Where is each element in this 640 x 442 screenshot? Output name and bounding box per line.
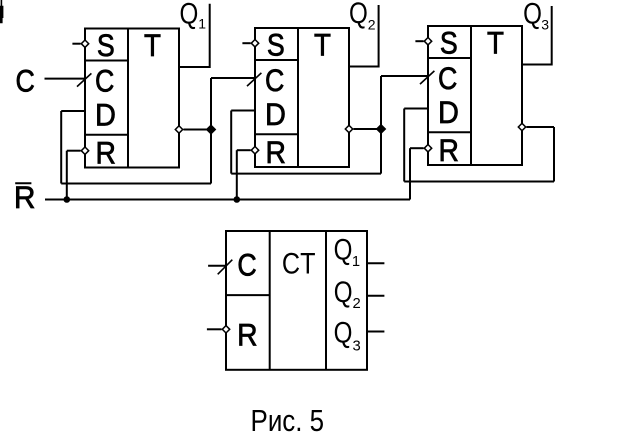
reset bus wire <box>45 199 410 201</box>
DD1 label D <box>95 98 116 132</box>
node B junction diamond <box>376 124 385 133</box>
DD1 label C <box>95 64 114 98</box>
wire DD3 feedback left riser to D <box>403 109 405 182</box>
svg-text:R: R <box>237 318 257 353</box>
svg-text:T: T <box>314 28 331 63</box>
DD2 label R <box>265 136 285 171</box>
DD3 pin D wire <box>404 108 428 110</box>
label Q1 <box>179 0 198 30</box>
svg-text:R: R <box>265 136 285 171</box>
svg-text:R: R <box>14 179 36 215</box>
input label C <box>15 64 34 98</box>
counter pin R stub wire <box>207 328 222 330</box>
DD1 label S <box>97 29 115 63</box>
counter label Q3 <box>334 316 353 349</box>
wire DD2 R down to reset bus <box>236 150 238 199</box>
DD3 label D <box>438 96 459 130</box>
DD2 pin D wire <box>231 110 255 112</box>
junction dot DD1 R on reset bus <box>64 196 71 203</box>
DD1 pin R inversion diamond <box>81 147 88 154</box>
counter pin C input wire <box>208 265 226 267</box>
counter label R <box>237 318 257 353</box>
input label R overbar <box>15 182 31 184</box>
DD3 label S <box>440 26 458 60</box>
svg-text:D: D <box>438 96 459 130</box>
DD2 pin R stub wire <box>237 149 251 151</box>
wire DD2 Qbar to node B <box>353 128 381 130</box>
flip-flop DD1 box <box>85 29 179 168</box>
DD2 pin C dynamic-input slash <box>247 73 261 86</box>
counter label Q1 <box>334 233 353 266</box>
counter pin Q3 output stub <box>367 331 384 333</box>
counter label Q2 <box>334 276 353 309</box>
DD3 inverted output diamond <box>518 123 525 130</box>
DD1 pin C dynamic-input slash <box>77 73 91 86</box>
wire node B to DD3 clock input <box>381 75 428 77</box>
wire DD1 R down to reset bus <box>66 151 68 200</box>
DD3 pin R inversion diamond <box>424 145 431 152</box>
svg-text:Q: Q <box>334 316 353 349</box>
DD3 pin S stub wire <box>415 40 423 42</box>
DD1 label T <box>144 29 161 64</box>
wire node A vertical (clock riser and feedback drop) <box>210 78 212 184</box>
DD3 pin R stub wire <box>410 147 424 149</box>
counter pin Q2 output stub <box>367 295 384 297</box>
wire input C to DD1 <box>45 78 86 80</box>
svg-text:Q: Q <box>179 0 198 30</box>
DD3 pin S inversion diamond <box>424 38 431 45</box>
svg-text:2: 2 <box>368 17 376 33</box>
DD1 pin D wire <box>61 110 85 112</box>
wire node A to DD2 clock input <box>211 77 255 79</box>
scan artifact top-left edge <box>0 0 3 23</box>
svg-text:S: S <box>97 29 115 63</box>
wire DD1 feedback bottom <box>61 183 211 185</box>
DD2 label D <box>265 98 286 132</box>
DD2 pin S stub wire <box>242 42 250 44</box>
svg-text:D: D <box>265 98 286 132</box>
svg-text:R: R <box>438 134 458 169</box>
svg-text:Q: Q <box>349 0 368 29</box>
DD2 pin S inversion diamond <box>251 40 258 47</box>
svg-text:C: C <box>265 64 284 98</box>
DD3 label R <box>438 134 458 169</box>
wire DD2 feedback bottom <box>231 173 381 175</box>
label Q3 <box>523 0 542 30</box>
counter pin C dynamic-input slash <box>218 260 233 275</box>
DD1 inverted output diamond <box>175 126 182 133</box>
wire DD1 Qbar to node A <box>183 129 211 131</box>
counter label CT <box>282 247 316 281</box>
DD1 label R <box>95 136 115 171</box>
svg-text:Q: Q <box>334 233 353 266</box>
DD1 pin S stub wire <box>72 43 80 45</box>
DD3 label C <box>438 62 457 96</box>
DD2 pin R inversion diamond <box>251 147 258 154</box>
node A junction diamond <box>206 125 215 134</box>
wire DD3 feedback bottom <box>404 181 554 183</box>
counter CT symbol box <box>226 231 367 370</box>
flip-flop DD2 box <box>255 28 349 167</box>
flip-flop DD3 box <box>428 26 522 165</box>
DD1 pin R stub wire <box>67 150 81 152</box>
wire DD3 feedback right drop <box>553 127 555 182</box>
svg-text:S: S <box>440 26 458 60</box>
DD1 pin S inversion diamond <box>81 40 88 47</box>
svg-text:3: 3 <box>352 338 360 354</box>
DD2 label T <box>314 28 331 63</box>
DD2 inverted output diamond <box>345 125 352 132</box>
caption Fig. 5 <box>251 403 325 437</box>
DD2 label S <box>267 28 285 62</box>
DD3 pin C dynamic-input slash <box>420 71 434 84</box>
svg-text:C: C <box>237 248 256 282</box>
svg-text:Q: Q <box>334 276 353 309</box>
counter pin R inversion diamond <box>222 326 229 333</box>
svg-text:T: T <box>144 29 161 64</box>
wire DD1 Q output to Q1 terminal <box>179 4 210 67</box>
DD3 label T <box>487 26 504 61</box>
svg-text:C: C <box>438 62 457 96</box>
svg-text:CT: CT <box>282 247 316 281</box>
svg-text:Рис. 5: Рис. 5 <box>251 403 325 437</box>
svg-text:D: D <box>95 98 116 132</box>
wire reset bus riser to DD3 R <box>409 148 411 199</box>
counter label C <box>237 248 256 282</box>
svg-text:C: C <box>95 64 114 98</box>
svg-text:3: 3 <box>541 17 549 33</box>
svg-text:2: 2 <box>352 296 360 312</box>
svg-text:T: T <box>487 26 504 61</box>
junction dot DD2 R on reset bus <box>234 196 241 203</box>
wire DD3 Q output to Q3 terminal <box>522 6 552 65</box>
svg-text:1: 1 <box>352 254 360 270</box>
svg-text:S: S <box>267 28 285 62</box>
wire node B vertical (clock riser and feedback drop) <box>380 76 382 174</box>
wire DD2 Q output to Q2 terminal <box>349 5 379 67</box>
wire DD3 Qbar right <box>526 126 554 128</box>
counter pin Q1 output stub <box>367 262 384 264</box>
wire DD1 feedback left riser to D <box>60 111 62 184</box>
input label R-bar letter <box>14 179 36 215</box>
svg-text:Q: Q <box>523 0 542 30</box>
wire DD2 feedback left riser to D <box>230 111 232 174</box>
svg-text:1: 1 <box>198 15 206 31</box>
svg-text:R: R <box>95 136 115 171</box>
DD2 label C <box>265 64 284 98</box>
label Q2 <box>349 0 368 29</box>
svg-text:C: C <box>15 64 34 98</box>
